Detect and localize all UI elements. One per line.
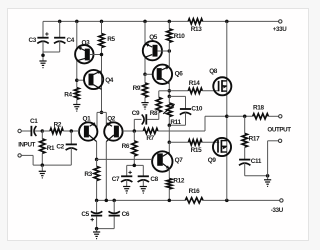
svg-text:INPUT: INPUT [18, 142, 35, 149]
svg-text:C7: C7 [112, 176, 120, 183]
svg-text:Q8: Q8 [209, 68, 218, 75]
svg-text:R2: R2 [54, 121, 62, 128]
svg-text:C10: C10 [191, 106, 202, 113]
svg-text:C9: C9 [132, 110, 140, 117]
svg-text:R11: R11 [170, 119, 181, 126]
svg-text:C8: C8 [150, 176, 158, 183]
svg-text:C2: C2 [56, 144, 64, 151]
svg-text:R4: R4 [64, 91, 72, 98]
svg-text:Q9: Q9 [208, 157, 217, 164]
svg-text:Q5: Q5 [149, 34, 158, 41]
svg-text:R12: R12 [173, 178, 184, 185]
svg-text:Q4: Q4 [105, 77, 114, 84]
svg-text:R5: R5 [107, 36, 115, 43]
svg-text:R17: R17 [249, 135, 260, 142]
svg-text:R13: R13 [191, 26, 202, 33]
svg-text:Q3: Q3 [82, 40, 91, 47]
svg-text:R9: R9 [133, 85, 141, 92]
svg-text:Q2: Q2 [107, 116, 116, 123]
svg-text:OUTPUT: OUTPUT [267, 127, 291, 134]
svg-text:R1: R1 [47, 145, 55, 152]
svg-text:Q1: Q1 [83, 116, 92, 123]
svg-text:+33U: +33U [273, 26, 287, 33]
svg-text:R10: R10 [174, 33, 185, 40]
svg-text:C5: C5 [81, 211, 89, 218]
svg-text:C4: C4 [67, 37, 75, 44]
svg-text:R6: R6 [122, 143, 130, 150]
svg-text:R3: R3 [84, 171, 92, 178]
svg-text:C1: C1 [30, 118, 38, 125]
svg-text:R7: R7 [146, 135, 154, 142]
svg-text:C3: C3 [29, 37, 37, 44]
svg-text:C6: C6 [122, 211, 130, 218]
svg-text:R18: R18 [253, 105, 264, 112]
svg-text:R14: R14 [189, 80, 200, 87]
svg-text:C11: C11 [251, 158, 262, 165]
svg-text:R16: R16 [189, 188, 200, 195]
svg-text:Q6: Q6 [175, 71, 184, 78]
svg-text:Q7: Q7 [175, 157, 184, 164]
svg-text:R15: R15 [191, 147, 202, 154]
svg-text:R8: R8 [150, 110, 158, 117]
svg-text:-33U: -33U [271, 207, 284, 214]
